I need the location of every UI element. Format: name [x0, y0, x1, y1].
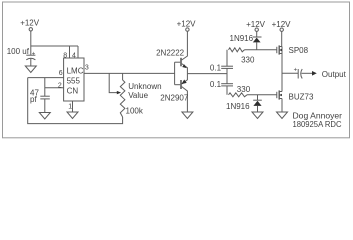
svg-text:+: +	[32, 51, 36, 57]
svg-text:0.1: 0.1	[210, 63, 222, 72]
svg-text:330: 330	[241, 56, 255, 65]
svg-text:+: +	[294, 67, 298, 73]
svg-text:4: 4	[72, 53, 76, 60]
svg-text:+12V: +12V	[272, 20, 292, 29]
svg-text:Output: Output	[322, 70, 347, 79]
svg-text:1N916: 1N916	[226, 102, 250, 111]
svg-text:Unknown: Unknown	[128, 82, 161, 91]
svg-text:2: 2	[58, 82, 62, 89]
svg-text:0.1: 0.1	[210, 80, 222, 89]
svg-text:180925A RDC: 180925A RDC	[293, 120, 342, 129]
svg-text:330: 330	[237, 85, 251, 94]
svg-text:BUZ73: BUZ73	[289, 93, 314, 102]
svg-text:1N916: 1N916	[230, 34, 254, 43]
svg-text:3: 3	[85, 65, 89, 72]
svg-text:100k: 100k	[126, 107, 144, 116]
svg-text:+12V: +12V	[246, 20, 266, 29]
svg-text:pf: pf	[30, 95, 37, 104]
svg-text:+12V: +12V	[177, 19, 197, 28]
svg-text:1: 1	[68, 103, 72, 110]
svg-text:SP08: SP08	[289, 46, 309, 55]
svg-text:6: 6	[59, 70, 63, 77]
svg-text:2N2907: 2N2907	[160, 93, 189, 102]
svg-text:CN: CN	[67, 87, 79, 96]
svg-text:8: 8	[63, 53, 67, 60]
svg-text:LMC: LMC	[67, 67, 84, 76]
svg-text:Value: Value	[128, 91, 148, 100]
svg-text:2N2222: 2N2222	[156, 49, 185, 58]
svg-text:+12V: +12V	[20, 19, 40, 28]
svg-text:100 uf: 100 uf	[7, 47, 30, 56]
svg-text:555: 555	[67, 77, 81, 86]
